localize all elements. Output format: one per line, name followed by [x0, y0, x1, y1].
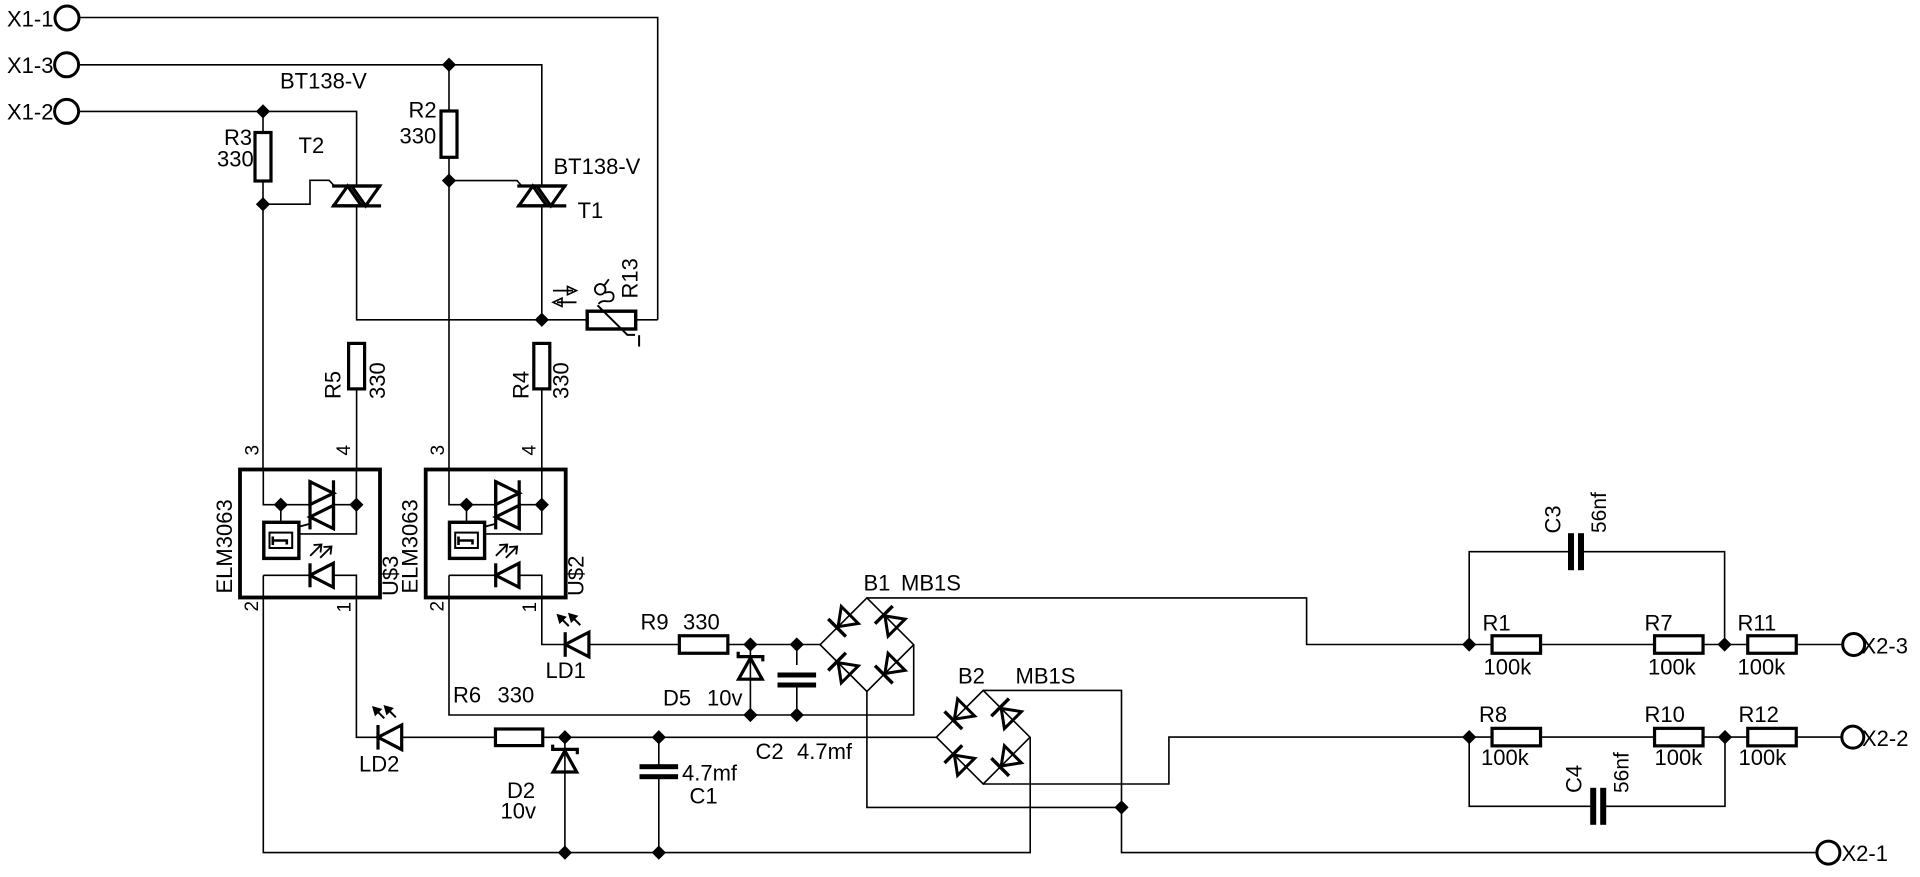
wire C1	[658, 737, 660, 852]
label LD2	[359, 752, 399, 777]
label U$2 pin 1	[520, 602, 541, 613]
wire row1 a	[1469, 644, 1492, 646]
label D2 value 10v	[501, 799, 536, 824]
wire R3 bottom	[262, 181, 264, 204]
svg-text:R12: R12	[1739, 702, 1779, 727]
wire row1 c	[1703, 644, 1748, 646]
label U$3	[378, 556, 403, 596]
svg-text:100k: 100k	[1739, 745, 1788, 770]
U$3 internal junction	[275, 499, 286, 510]
U$2 internal LED arrows	[496, 545, 517, 558]
node X1-3/R2 junction	[443, 59, 454, 70]
svg-text:100k: 100k	[1648, 655, 1697, 680]
label U$2	[564, 556, 589, 596]
label U$3 pin 2	[242, 601, 263, 612]
wire row2 b	[1541, 736, 1654, 738]
U$2 internal LED wires	[449, 575, 542, 597]
svg-text:C4: C4	[1562, 765, 1587, 793]
label B2 type MB1S	[1016, 664, 1076, 689]
label U$3 pin 4	[334, 445, 355, 456]
label C1 value 4.7mf	[682, 761, 738, 786]
node D2 bottom junction	[559, 847, 570, 858]
U$3 internal wire T-to-pin4	[299, 505, 357, 534]
node C1 bottom junction	[653, 847, 664, 858]
U$3 internal T drop	[280, 505, 282, 523]
svg-text:R13: R13	[617, 258, 642, 298]
svg-text:C3: C3	[1540, 505, 1565, 533]
varistor R13	[587, 305, 639, 346]
wire U$2 pin3 drop	[448, 181, 450, 470]
U$2 internal LED	[496, 563, 519, 587]
label R3	[224, 125, 252, 150]
svg-text:1: 1	[334, 602, 355, 613]
label R6	[453, 683, 481, 708]
U$3 trigger box	[264, 522, 299, 558]
svg-text:R1: R1	[1483, 611, 1511, 636]
svg-text:1: 1	[520, 602, 541, 613]
label U$2 pin 3	[428, 445, 449, 456]
svg-text:R4: R4	[509, 371, 534, 399]
node D5 top junction	[745, 639, 756, 650]
svg-text:330: 330	[549, 362, 574, 399]
svg-text:X1-2: X1-2	[7, 100, 53, 125]
node D2 top junction	[559, 732, 570, 743]
node X1-2/R3 junction	[257, 106, 268, 117]
label C4	[1562, 765, 1587, 793]
node row1 right junction	[1719, 639, 1730, 650]
svg-text:R7: R7	[1645, 611, 1673, 636]
resistor R9	[679, 636, 728, 654]
wire U$2 pin1 to LD1	[542, 598, 565, 645]
U$2 internal junction right	[536, 499, 547, 510]
LD1 arrows	[558, 614, 581, 626]
resistor R8	[1492, 728, 1541, 746]
svg-text:C2: C2	[756, 739, 784, 764]
U$3 internal triac	[310, 480, 334, 529]
wire T1 gate	[449, 181, 522, 186]
wire R3 top	[262, 111, 264, 132]
label U$3 pin 3	[242, 445, 263, 456]
label R12 value 100k	[1739, 745, 1788, 770]
label R7 value 100k	[1648, 655, 1697, 680]
label B1 type MB1S	[901, 571, 961, 596]
U$3 internal LED arrows	[310, 545, 331, 558]
label C4 value 56nf	[1611, 752, 1634, 793]
svg-text:330: 330	[400, 124, 437, 149]
node row2 right junction	[1719, 731, 1730, 742]
label R11	[1738, 611, 1777, 636]
wire C4 loop	[1469, 737, 1725, 806]
svg-text:X1-3: X1-3	[7, 53, 53, 78]
label D5	[663, 686, 691, 711]
resistor R12	[1748, 728, 1797, 746]
label T2	[299, 133, 325, 158]
label C2 value 4.7mf	[797, 739, 853, 764]
resistor R4	[534, 343, 550, 389]
label R8 value 100k	[1481, 745, 1530, 770]
wire row1 b	[1541, 644, 1654, 646]
label U$3 pin 1	[334, 602, 355, 613]
resistor R2	[441, 111, 457, 157]
label BT138-V (T2)	[280, 69, 367, 94]
U$2 internal T drop	[466, 505, 468, 523]
triac T2	[332, 186, 381, 206]
capacitor C3	[1568, 533, 1584, 570]
wire C2	[796, 645, 798, 716]
svg-text:MB1S: MB1S	[1016, 664, 1076, 689]
svg-text:X2-2: X2-2	[1862, 726, 1908, 751]
resistor R5	[349, 343, 365, 389]
wire T1 bottom	[541, 206, 543, 320]
label R10	[1645, 702, 1685, 727]
label C3 value 56nf	[1588, 492, 1611, 533]
label R4 value 330	[549, 362, 574, 399]
label R4	[509, 371, 534, 399]
capacitor C4	[1590, 788, 1606, 825]
resistor R11	[1748, 636, 1797, 654]
svg-text:X2-3: X2-3	[1862, 634, 1908, 659]
svg-text:4.7mf: 4.7mf	[682, 761, 738, 786]
wire row1 to X2-3	[1796, 644, 1843, 646]
node B1/B2 junction	[1116, 802, 1127, 813]
resistor R1	[1492, 636, 1541, 654]
svg-text:100k: 100k	[1738, 655, 1787, 680]
wire D5	[749, 645, 751, 716]
label R9 value 330	[683, 610, 720, 635]
bridge rectifier B2	[936, 690, 1030, 784]
wire row2 to X2-2	[1796, 736, 1842, 738]
zener diode D5	[738, 652, 763, 679]
node D5 bottom junction	[745, 709, 756, 720]
svg-text:ELM3063: ELM3063	[398, 499, 423, 593]
label T1	[578, 198, 604, 223]
label U$2 pin 4	[520, 445, 541, 456]
label R7	[1645, 611, 1673, 636]
wire D2	[564, 737, 566, 852]
wire B1 top to row1	[867, 598, 1469, 645]
U$2 internal junction	[461, 499, 472, 510]
label R10 value 100k	[1655, 745, 1704, 770]
terminal X1-2	[7, 99, 79, 124]
U$2 trigger box	[450, 522, 485, 558]
label R5	[321, 371, 346, 399]
wire B2 top to X2-1	[983, 690, 1817, 852]
optocoupler U$2 body	[426, 470, 566, 598]
LD2 arrows	[373, 706, 396, 718]
svg-text:2: 2	[428, 601, 449, 612]
svg-text:LD2: LD2	[359, 752, 399, 777]
svg-text:LD1: LD1	[546, 658, 586, 683]
U$2 internal wire bar-to-pin4	[519, 504, 542, 506]
svg-text:R8: R8	[1479, 702, 1507, 727]
svg-text:2: 2	[242, 601, 263, 612]
node C1 top junction	[653, 732, 664, 743]
resistor R3	[255, 133, 271, 182]
bridge rectifier B1	[820, 598, 914, 692]
label R2	[409, 98, 437, 123]
label R3 value 330	[217, 146, 254, 171]
label C1	[690, 784, 718, 809]
wire row2 c	[1703, 736, 1748, 738]
wire R9 to B1	[728, 644, 820, 646]
wire X1-1 to R13 right	[79, 18, 658, 320]
svg-text:T1: T1	[578, 198, 604, 223]
U$3 internal LED wires	[263, 575, 356, 597]
svg-text:R6: R6	[453, 683, 481, 708]
svg-text:R2: R2	[409, 98, 437, 123]
svg-text:MB1S: MB1S	[901, 571, 961, 596]
wire U$3 pin1 to LD2	[356, 598, 378, 738]
optocoupler U$3 body	[240, 470, 380, 598]
label D2	[507, 778, 535, 803]
resistor R10	[1655, 728, 1704, 746]
terminal X2-3	[1843, 634, 1908, 659]
R13 arrows	[553, 286, 577, 306]
U$3 internal wire pin4	[355, 470, 357, 505]
node row2 left junction	[1464, 731, 1475, 742]
node C2 bottom junction	[791, 709, 802, 720]
wire C3 loop	[1469, 552, 1724, 645]
capacitor C2	[778, 673, 817, 688]
U$3 internal junction right	[351, 499, 362, 510]
U$3 internal LED	[310, 563, 333, 587]
svg-text:B1: B1	[864, 571, 891, 596]
wire U$3 pin3 drop	[262, 204, 264, 469]
U$3 gate link	[299, 524, 310, 527]
svg-text:R9: R9	[641, 610, 669, 635]
svg-text:R10: R10	[1645, 702, 1685, 727]
svg-text:3: 3	[242, 445, 263, 456]
wire LD1 to R9	[589, 644, 680, 646]
svg-text:330: 330	[683, 610, 720, 635]
node T1/R4 junction	[536, 314, 547, 325]
svg-text:330: 330	[365, 362, 390, 399]
svg-text:X2-1: X2-1	[1842, 841, 1888, 866]
wire LD2 to R6	[402, 736, 496, 738]
label R9	[641, 610, 669, 635]
U$2 internal wire pin4	[541, 470, 543, 505]
svg-text:X1-1: X1-1	[7, 7, 53, 32]
label R6 value 330	[498, 683, 535, 708]
node R3/gate junction	[257, 199, 268, 210]
terminal X2-1	[1817, 841, 1888, 866]
zener diode D2	[553, 745, 578, 772]
resistor R7	[1655, 636, 1704, 654]
LED LD1	[565, 632, 589, 657]
triac T1	[517, 186, 566, 206]
label U$3 ELM3063	[212, 499, 237, 593]
U$2 internal wire pin3	[449, 470, 496, 505]
svg-text:B2: B2	[958, 664, 985, 689]
label R11 value 100k	[1738, 655, 1787, 680]
svg-text:10v: 10v	[707, 686, 742, 711]
wire U$2 pin2 to B1 right	[449, 598, 914, 716]
label R5 value 330	[365, 362, 390, 399]
svg-text:330: 330	[217, 146, 254, 171]
wire R5 to U$3 pin4	[356, 389, 358, 470]
label R8	[1479, 702, 1507, 727]
node R2/gate junction	[443, 175, 454, 186]
svg-text:100k: 100k	[1484, 655, 1533, 680]
svg-text:4.7mf: 4.7mf	[797, 739, 853, 764]
node C2 top junction	[791, 639, 802, 650]
U$3 internal wire pin3	[263, 470, 310, 505]
wire R6 to B2	[543, 736, 937, 738]
wire R4 to U$2 pin4	[541, 389, 543, 469]
terminal X2-2	[1842, 726, 1909, 751]
label LD1	[546, 658, 586, 683]
svg-text:U$2: U$2	[564, 556, 589, 596]
svg-text:R5: R5	[321, 371, 346, 399]
wire R2 bottom	[448, 157, 450, 180]
svg-text:330: 330	[498, 683, 535, 708]
label D5 value 10v	[707, 686, 742, 711]
wire X1-3 to T1	[79, 65, 542, 186]
svg-text:100k: 100k	[1655, 745, 1704, 770]
label R2 value 330	[400, 124, 437, 149]
wire R2 top	[448, 65, 450, 111]
U$3 internal wire bar-to-pin4	[334, 504, 357, 506]
svg-text:BT138-V: BT138-V	[280, 69, 367, 94]
wire T2 gate	[263, 180, 335, 204]
wire U$3 pin2 to bottom rail	[263, 598, 1030, 853]
svg-text:56nf: 56nf	[1611, 752, 1634, 793]
label BT138-V (T1)	[554, 154, 641, 179]
svg-text:56nf: 56nf	[1588, 492, 1611, 533]
label U$2 ELM3063	[398, 499, 423, 593]
label C2	[756, 739, 784, 764]
svg-text:ELM3063: ELM3063	[212, 499, 237, 593]
label R1 value 100k	[1484, 655, 1533, 680]
node row1 left junction	[1464, 639, 1475, 650]
U$2 internal wire T-to-pin4	[485, 505, 542, 534]
U$2 gate link	[485, 524, 496, 527]
svg-text:4: 4	[520, 445, 541, 456]
svg-text:D5: D5	[663, 686, 691, 711]
label B2	[958, 664, 985, 689]
resistor R6	[495, 729, 542, 746]
terminal X1-3	[7, 53, 79, 78]
wire T2 to R13 row	[357, 206, 588, 320]
svg-text:R11: R11	[1738, 611, 1777, 636]
label C3	[1540, 505, 1565, 533]
label U$2 pin 2	[428, 601, 449, 612]
R13 adjust symbol	[595, 279, 614, 304]
wire X1-2 to T2	[79, 111, 357, 186]
LED LD2	[378, 725, 402, 750]
svg-text:10v: 10v	[501, 799, 536, 824]
wire B1 bottom	[867, 692, 1122, 808]
capacitor C1	[640, 764, 679, 779]
svg-text:C1: C1	[690, 784, 718, 809]
label R13	[617, 258, 642, 298]
label R12	[1739, 702, 1779, 727]
U$2 internal triac	[496, 480, 520, 529]
terminal X1-1	[7, 6, 79, 32]
svg-text:100k: 100k	[1481, 745, 1530, 770]
wire B2 bottom to row2	[983, 737, 1492, 784]
svg-text:3: 3	[428, 445, 449, 456]
svg-text:BT138-V: BT138-V	[554, 154, 641, 179]
label R1	[1483, 611, 1511, 636]
svg-text:4: 4	[334, 445, 355, 456]
label B1	[864, 571, 891, 596]
wire R13 to X1-1 drop	[636, 319, 658, 321]
svg-text:T2: T2	[299, 133, 325, 158]
